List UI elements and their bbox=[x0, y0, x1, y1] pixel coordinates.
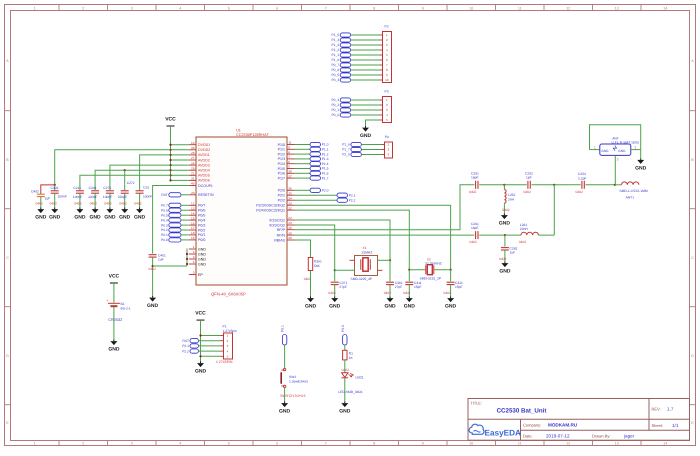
svg-text:RF/N: RF/N bbox=[277, 233, 286, 237]
wire LED1 bottom bbox=[344, 379, 346, 402]
wire RF_N row bbox=[295, 234, 475, 236]
capacitor C272 bbox=[121, 190, 129, 192]
svg-text:P0_0: P0_0 bbox=[331, 113, 339, 117]
svg-text:P2.1: P2.1 bbox=[349, 193, 356, 197]
svg-text:33: 33 bbox=[288, 201, 292, 205]
node X1 left junction bbox=[334, 269, 336, 271]
svg-text:RF/P: RF/P bbox=[277, 228, 286, 232]
svg-text:2nH: 2nH bbox=[508, 197, 515, 201]
wire C403 stub bbox=[54, 185, 56, 191]
switch SW1 bbox=[283, 368, 285, 370]
svg-text:40: 40 bbox=[191, 182, 195, 186]
wire R1 to LED1 bbox=[344, 360, 346, 373]
capacitor C252 bbox=[527, 181, 529, 189]
svg-text:14: 14 bbox=[663, 442, 667, 446]
inductor L261 bbox=[521, 232, 538, 235]
net flags P3 bank bbox=[340, 98, 351, 102]
svg-text:29: 29 bbox=[191, 166, 195, 170]
svg-text:12: 12 bbox=[566, 6, 570, 10]
svg-text:14: 14 bbox=[191, 211, 195, 215]
svg-text:P1_4: P1_4 bbox=[331, 38, 339, 42]
svg-text:GND: GND bbox=[104, 215, 116, 221]
node X2 right junction bbox=[450, 269, 452, 271]
net flags P1.0-P1.7 bbox=[295, 144, 311, 146]
svg-text:13: 13 bbox=[191, 206, 195, 210]
svg-text:30: 30 bbox=[288, 236, 292, 240]
node GND pin junctions bbox=[186, 253, 188, 255]
node L261 top junction bbox=[553, 184, 555, 186]
capacitor C254 bbox=[581, 181, 583, 189]
svg-text:10: 10 bbox=[469, 442, 473, 446]
svg-text:P0.5: P0.5 bbox=[161, 213, 168, 217]
svg-text:P1/0: P1/0 bbox=[278, 143, 285, 147]
svg-text:Date:: Date: bbox=[523, 434, 533, 439]
svg-text:CC2530F128RHAT: CC2530F128RHAT bbox=[236, 133, 269, 137]
wire RF_P up bbox=[295, 185, 475, 230]
svg-text:P0.2: P0.2 bbox=[161, 228, 168, 232]
capacitor C402 bbox=[37, 193, 45, 195]
svg-text:P0_5: P0_5 bbox=[331, 73, 339, 77]
svg-text:AVDD5: AVDD5 bbox=[198, 174, 210, 178]
svg-text:5: 5 bbox=[228, 6, 230, 10]
ground (C361) bbox=[389, 297, 391, 299]
svg-text:1: 1 bbox=[193, 245, 195, 249]
connector P4 bbox=[385, 142, 393, 158]
inductor ANT1 bbox=[622, 182, 639, 185]
svg-text:P1.7: P1.7 bbox=[322, 176, 329, 180]
ground (C401) bbox=[152, 296, 154, 298]
svg-text:P1_5: P1_5 bbox=[331, 33, 339, 37]
svg-text:GND: GND bbox=[90, 215, 102, 221]
wire SW1 top bbox=[284, 345, 286, 368]
net flag P2.1 bbox=[295, 194, 338, 196]
svg-text:P1/1: P1/1 bbox=[278, 148, 285, 152]
svg-text:Drawn By:: Drawn By: bbox=[592, 434, 610, 439]
svg-text:BS-2-1: BS-2-1 bbox=[121, 306, 131, 310]
wire AVDD5 to C211 column bbox=[80, 175, 171, 190]
svg-text:P1/3: P1/3 bbox=[278, 157, 285, 161]
capacitor C211 bbox=[76, 190, 84, 192]
wire B1 top bbox=[113, 283, 115, 303]
svg-text:C31: C31 bbox=[143, 185, 149, 189]
svg-text:+: + bbox=[106, 299, 108, 303]
wire AVDD3 to C271 column bbox=[110, 165, 171, 190]
ground (C321) bbox=[450, 297, 452, 299]
node AVDD4/C272 junction bbox=[124, 169, 126, 171]
svg-text:VCC: VCC bbox=[195, 311, 206, 317]
svg-text:4: 4 bbox=[179, 6, 181, 10]
capacitor C361 bbox=[389, 260, 391, 281]
wire B1 bottom bbox=[113, 307, 115, 339]
svg-text:0402: 0402 bbox=[469, 190, 477, 194]
wire AVDD1 to C31 column bbox=[140, 155, 171, 190]
node C403 top junction bbox=[54, 184, 56, 186]
svg-text:0402: 0402 bbox=[499, 257, 507, 261]
svg-text:P0_1: P0_1 bbox=[331, 108, 339, 112]
ground (C262) bbox=[504, 262, 506, 264]
svg-text:GND: GND bbox=[74, 215, 86, 221]
svg-text:0402: 0402 bbox=[524, 190, 532, 194]
svg-text:P1_1: P1_1 bbox=[331, 53, 339, 57]
svg-text:GND: GND bbox=[384, 304, 396, 310]
svg-text:GND: GND bbox=[198, 262, 206, 266]
node C401/GND junction bbox=[152, 265, 154, 267]
svg-text:C: C bbox=[691, 256, 694, 260]
svg-text:100nF: 100nF bbox=[73, 195, 82, 199]
svg-text:5: 5 bbox=[288, 165, 290, 169]
ground (L252) bbox=[503, 214, 505, 216]
svg-text:6: 6 bbox=[276, 442, 278, 446]
svg-text:P0/3: P0/3 bbox=[198, 223, 205, 227]
svg-text:11: 11 bbox=[288, 141, 291, 145]
capacitor C261 bbox=[475, 231, 477, 239]
wires U1 power pins to VCC bus bbox=[171, 144, 189, 146]
svg-text:0402: 0402 bbox=[384, 291, 392, 295]
wire ANT pin1 bbox=[590, 149, 600, 151]
svg-text:GND: GND bbox=[601, 149, 609, 153]
svg-text:RESET/N: RESET/N bbox=[198, 193, 214, 197]
wire ANT pin2 to ground bbox=[631, 149, 641, 151]
svg-text:CR2032: CR2032 bbox=[108, 318, 122, 322]
svg-text:0: 0 bbox=[193, 271, 195, 275]
node L252 junction bbox=[503, 184, 505, 186]
svg-text:P0/6: P0/6 bbox=[198, 209, 205, 213]
svg-text:32: 32 bbox=[288, 206, 292, 210]
svg-text:16pF: 16pF bbox=[471, 176, 479, 180]
wire P2_4 to X2 left bbox=[295, 210, 410, 270]
svg-text:GND: GND bbox=[279, 409, 291, 415]
svg-text:18: 18 bbox=[191, 231, 195, 235]
svg-text:0402: 0402 bbox=[90, 202, 98, 206]
svg-text:1.3switch4x2: 1.3switch4x2 bbox=[289, 379, 308, 383]
svg-text:P0_7: P0_7 bbox=[331, 63, 339, 67]
ground (R301) bbox=[310, 297, 312, 299]
net flag P2.2 bbox=[295, 199, 338, 201]
svg-text:P0.1: P0.1 bbox=[281, 325, 285, 332]
svg-text:P1_3: P1_3 bbox=[331, 43, 339, 47]
svg-text:15: 15 bbox=[191, 216, 195, 220]
svg-text:P1/6: P1/6 bbox=[278, 172, 285, 176]
svg-text:P1.4: P1.4 bbox=[322, 162, 329, 166]
title block frame bbox=[468, 399, 690, 441]
svg-text:0402: 0402 bbox=[119, 202, 127, 206]
U1 right pins bbox=[287, 144, 295, 146]
ground (P3) bbox=[365, 126, 367, 128]
svg-text:ANT1: ANT1 bbox=[626, 195, 635, 199]
svg-text:0402: 0402 bbox=[519, 240, 527, 244]
svg-text:26: 26 bbox=[288, 231, 292, 235]
svg-text:1: 1 bbox=[34, 6, 36, 10]
svg-text:100nF: 100nF bbox=[88, 195, 97, 199]
capacitor C401 bbox=[149, 254, 157, 256]
svg-text:AVDD4: AVDD4 bbox=[198, 169, 210, 173]
svg-text:9: 9 bbox=[288, 146, 290, 150]
svg-text:4: 4 bbox=[179, 442, 181, 446]
svg-text:P0.1: P0.1 bbox=[161, 233, 168, 237]
svg-text:1uF: 1uF bbox=[158, 258, 164, 262]
capacitor C321 bbox=[450, 270, 452, 282]
wire DVDD2 to C403 column bbox=[55, 150, 171, 185]
capacitor C251 bbox=[475, 181, 477, 189]
wire P3 pin5 to ground bbox=[366, 120, 380, 126]
node X2 left junction bbox=[408, 269, 410, 271]
wire L261 up to row1 bbox=[553, 185, 555, 235]
svg-text:28: 28 bbox=[191, 151, 195, 155]
svg-text:GND: GND bbox=[134, 215, 146, 221]
svg-text:37: 37 bbox=[288, 174, 292, 178]
svg-text:GND: GND bbox=[49, 215, 61, 221]
svg-text:P0.4: P0.4 bbox=[161, 218, 168, 222]
svg-text:P4: P4 bbox=[385, 135, 389, 139]
wire row1 mid bbox=[504, 184, 526, 186]
ground (SW1) bbox=[284, 402, 286, 404]
wire C272 column tap bbox=[124, 170, 126, 190]
capacitor C262 bbox=[504, 235, 506, 247]
connector P3 bbox=[383, 97, 392, 123]
svg-text:0402: 0402 bbox=[149, 267, 157, 271]
wire ANT pin3 bbox=[614, 155, 616, 184]
svg-text:P1.5: P1.5 bbox=[322, 167, 329, 171]
svg-text:21: 21 bbox=[191, 172, 195, 176]
svg-text:GND: GND bbox=[198, 257, 206, 261]
svg-text:1pF: 1pF bbox=[526, 176, 532, 180]
svg-text:0402: 0402 bbox=[502, 208, 510, 212]
svg-text:P2: P2 bbox=[385, 24, 389, 28]
wire RBIAS to R301 bbox=[295, 240, 311, 258]
connector P1 bbox=[224, 333, 233, 359]
svg-text:C402: C402 bbox=[31, 190, 39, 194]
svg-text:jager: jager bbox=[623, 434, 635, 439]
svg-text:11: 11 bbox=[518, 442, 522, 446]
svg-text:0402: 0402 bbox=[104, 202, 112, 206]
net flags P4 bank bbox=[351, 142, 362, 146]
ground (P1) bbox=[200, 362, 202, 364]
svg-text:GND: GND bbox=[119, 215, 131, 221]
U1 left pins bbox=[189, 144, 196, 146]
svg-text:P0/0: P0/0 bbox=[198, 238, 205, 242]
svg-text:3: 3 bbox=[193, 255, 195, 259]
svg-text:P2.0: P2.0 bbox=[322, 189, 329, 193]
svg-text:GND: GND bbox=[339, 409, 351, 415]
svg-text:27pF: 27pF bbox=[395, 285, 403, 289]
svg-text:1.27x5pin: 1.27x5pin bbox=[223, 329, 237, 333]
svg-text:GND: GND bbox=[198, 252, 206, 256]
net flags P2 bank bbox=[340, 33, 351, 37]
svg-text:P0.0: P0.0 bbox=[161, 238, 168, 242]
svg-text:2.2pF: 2.2pF bbox=[578, 176, 586, 180]
svg-text:22nH: 22nH bbox=[520, 227, 529, 231]
svg-text:20: 20 bbox=[191, 191, 195, 195]
svg-text:7: 7 bbox=[325, 442, 327, 446]
svg-text:12: 12 bbox=[566, 442, 570, 446]
svg-text:P2.2: P2.2 bbox=[349, 198, 356, 202]
svg-text:QFN-40_6X6X05P: QFN-40_6X6X05P bbox=[211, 292, 246, 297]
svg-text:GND: GND bbox=[404, 304, 416, 310]
svg-text:C241: C241 bbox=[89, 186, 97, 190]
svg-text:VCC: VCC bbox=[109, 274, 120, 280]
svg-text:17: 17 bbox=[191, 226, 195, 230]
wire C401 to U1 GND pins bbox=[153, 265, 187, 267]
svg-text:DVDD1: DVDD1 bbox=[198, 143, 210, 147]
node ANT feed junction bbox=[614, 184, 616, 186]
svg-text:GND: GND bbox=[499, 269, 511, 275]
svg-text:P2/3XOSC32KQ2: P2/3XOSC32KQ2 bbox=[256, 204, 285, 208]
svg-text:1.7: 1.7 bbox=[667, 407, 674, 412]
capacitor C241 bbox=[91, 190, 99, 192]
svg-text:P0.3: P0.3 bbox=[161, 223, 168, 227]
svg-text:3: 3 bbox=[131, 442, 133, 446]
svg-text:P1/2: P1/2 bbox=[278, 152, 285, 156]
svg-text:23: 23 bbox=[288, 221, 292, 225]
wire AVDD4 to C241 column bbox=[95, 170, 170, 190]
svg-text:P1.6: P1.6 bbox=[322, 172, 329, 176]
EasyEDA logo bbox=[469, 424, 484, 434]
svg-text:2: 2 bbox=[82, 442, 84, 446]
svg-text:27pF: 27pF bbox=[339, 285, 347, 289]
wire XOSC_Q1 to X1 right bbox=[295, 220, 391, 260]
svg-text:P1_0: P1_0 bbox=[331, 58, 339, 62]
svg-text:1/1: 1/1 bbox=[672, 423, 679, 428]
svg-text:AVDD1: AVDD1 bbox=[198, 153, 210, 157]
svg-text:EP: EP bbox=[198, 273, 203, 277]
node X1 right junction bbox=[389, 259, 391, 261]
svg-text:XOSC/Q1: XOSC/Q1 bbox=[269, 218, 285, 222]
net flags RST and P0.7-P0.0 bbox=[169, 193, 181, 197]
svg-text:LED1: LED1 bbox=[356, 375, 364, 379]
svg-text:6: 6 bbox=[276, 6, 278, 10]
svg-text:P2/2: P2/2 bbox=[278, 199, 285, 203]
svg-text:15pF: 15pF bbox=[455, 285, 463, 289]
svg-text:AVDD3: AVDD3 bbox=[198, 163, 210, 167]
svg-text:38: 38 bbox=[288, 170, 292, 174]
svg-text:SMD-L-0.5X2.1MM: SMD-L-0.5X2.1MM bbox=[619, 189, 647, 193]
svg-text:1.27X5PIN: 1.27X5PIN bbox=[216, 360, 233, 364]
svg-text:0402: 0402 bbox=[470, 240, 478, 244]
svg-text:31: 31 bbox=[191, 177, 195, 181]
capacitor C31 bbox=[136, 190, 144, 192]
wire DCOUPL bbox=[153, 186, 189, 254]
svg-text:8: 8 bbox=[288, 150, 290, 154]
svg-text:2: 2 bbox=[193, 250, 195, 254]
svg-text:6: 6 bbox=[288, 160, 290, 164]
wire VCC to P1 pin1 and GND bbox=[200, 320, 202, 361]
svg-text:P0/2: P0/2 bbox=[198, 228, 205, 232]
svg-text:REV:: REV: bbox=[652, 407, 661, 412]
svg-text:GND: GND bbox=[195, 369, 207, 375]
svg-text:AVDD6: AVDD6 bbox=[198, 179, 210, 183]
svg-text:10: 10 bbox=[469, 6, 473, 10]
svg-text:100nF: 100nF bbox=[143, 195, 152, 199]
svg-text:GND: GND bbox=[618, 149, 626, 153]
wire SW1 bottom bbox=[284, 388, 286, 402]
svg-text:U1: U1 bbox=[236, 129, 241, 133]
svg-text:C272: C272 bbox=[127, 181, 135, 185]
antenna connector ANT bbox=[600, 144, 631, 155]
svg-text:RST: RST bbox=[182, 339, 189, 343]
svg-text:27: 27 bbox=[191, 156, 195, 160]
svg-text:XOSC/Q2: XOSC/Q2 bbox=[269, 223, 285, 227]
LED LED1 bbox=[342, 373, 348, 378]
svg-text:0402: 0402 bbox=[576, 190, 584, 194]
svg-text:GND: GND bbox=[635, 166, 647, 172]
inductor L252 bbox=[503, 185, 505, 190]
svg-text:1uF: 1uF bbox=[510, 251, 516, 255]
ground (C371) bbox=[334, 297, 336, 299]
svg-text:7: 7 bbox=[325, 6, 327, 10]
svg-text:GND: GND bbox=[499, 221, 511, 227]
svg-text:25: 25 bbox=[288, 226, 292, 230]
op-amp U1 CC2530 body bbox=[196, 137, 287, 285]
svg-text:P0.7: P0.7 bbox=[161, 204, 168, 208]
svg-text:0402: 0402 bbox=[342, 368, 350, 372]
svg-text:AVDD2: AVDD2 bbox=[198, 158, 210, 162]
svg-text:0402: 0402 bbox=[50, 202, 58, 206]
svg-text:0402: 0402 bbox=[403, 291, 411, 295]
node P1 pin1 junction bbox=[199, 334, 201, 336]
node P1 pin5 junction bbox=[199, 355, 201, 357]
svg-text:P1.3: P1.3 bbox=[322, 157, 329, 161]
net flags P1 header (RST P2.1 P2.2) bbox=[190, 339, 199, 343]
svg-text:VCC: VCC bbox=[165, 117, 176, 123]
svg-text:D: D bbox=[691, 354, 694, 358]
net flag P2.0 bbox=[295, 189, 311, 191]
svg-text:Company:: Company: bbox=[523, 423, 541, 428]
svg-text:GND: GND bbox=[108, 347, 120, 353]
wire row2 mid bbox=[505, 234, 521, 236]
wire VCC bus vertical bbox=[170, 126, 172, 180]
capacitor C271 bbox=[106, 190, 114, 192]
crystal X2 bbox=[409, 269, 425, 271]
svg-text:32.768KHZ: 32.768KHZ bbox=[425, 261, 442, 265]
svg-text:12: 12 bbox=[191, 202, 195, 206]
svg-text:9: 9 bbox=[422, 6, 424, 10]
svg-text:P0_3: P0_3 bbox=[331, 98, 339, 102]
svg-text:P3: P3 bbox=[385, 89, 389, 93]
capacitor C403 bbox=[51, 190, 59, 192]
svg-text:10: 10 bbox=[385, 78, 389, 82]
capacitor C311 bbox=[408, 270, 410, 282]
svg-text:P0.0: P0.0 bbox=[341, 325, 345, 332]
svg-text:RBIAS: RBIAS bbox=[274, 238, 285, 242]
svg-text:GND: GND bbox=[445, 304, 457, 310]
svg-text:22: 22 bbox=[288, 216, 292, 220]
svg-text:35: 35 bbox=[288, 191, 292, 195]
svg-text:P1/5: P1/5 bbox=[278, 167, 285, 171]
svg-text:Sheet:: Sheet: bbox=[652, 423, 664, 428]
svg-text:0402: 0402 bbox=[74, 202, 82, 206]
svg-text:P0_2: P0_2 bbox=[331, 103, 339, 107]
svg-text:34: 34 bbox=[288, 196, 292, 200]
svg-text:100nF: 100nF bbox=[103, 195, 112, 199]
svg-text:DVDD2: DVDD2 bbox=[198, 148, 210, 152]
svg-text:P1/4: P1/4 bbox=[278, 162, 285, 166]
wire LED column top bbox=[344, 345, 346, 350]
wire R301 to ground bbox=[310, 271, 312, 297]
svg-text:10: 10 bbox=[191, 141, 195, 145]
svg-text:56K: 56K bbox=[314, 264, 321, 268]
svg-text:P2/0: P2/0 bbox=[278, 189, 285, 193]
svg-text:RST: RST bbox=[161, 193, 168, 197]
svg-text:1uF: 1uF bbox=[45, 197, 51, 201]
svg-text:P1_6: P1_6 bbox=[342, 143, 350, 147]
svg-text:CC2530 Bat_Unit: CC2530 Bat_Unit bbox=[497, 408, 547, 415]
svg-text:1: 1 bbox=[34, 442, 36, 446]
svg-text:32MHZ: 32MHZ bbox=[362, 250, 373, 254]
svg-text:100nF: 100nF bbox=[58, 195, 67, 199]
svg-text:GND: GND bbox=[198, 247, 206, 251]
svg-text:9: 9 bbox=[422, 442, 424, 446]
svg-text:P0/4: P0/4 bbox=[198, 218, 205, 222]
